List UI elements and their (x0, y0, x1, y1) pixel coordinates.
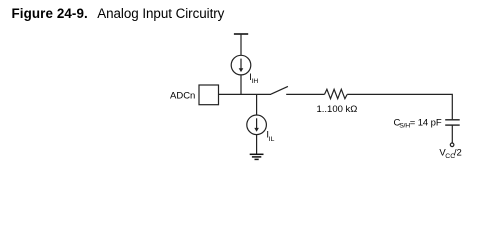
terminal VCC/2 (open circle) (450, 143, 454, 147)
label IIH (249, 72, 258, 85)
label VCC/2 (439, 147, 461, 159)
svg-text:1..100 kΩ: 1..100 kΩ (317, 104, 358, 115)
svg-text:= 14 pF: = 14 pF (410, 118, 442, 129)
svg-text:ADCn: ADCn (170, 90, 195, 101)
wire from capacitor to VCC/2 terminal (451, 125, 453, 143)
wire from input node down to IIL (256, 94, 258, 115)
wire from IIL to ground (256, 135, 258, 155)
wire from ADCn box to switch pivot (input node) (219, 93, 272, 95)
switch (sample/hold switch blade, open) (271, 86, 288, 94)
label CS/H = 14 pF (394, 118, 442, 130)
svg-text:IH: IH (252, 78, 259, 85)
resistor 1..100 kOhm (zigzag) (325, 89, 348, 98)
current source IIL (circle with down arrow) (247, 115, 267, 135)
current source IIH (U: circle with down arrow) (231, 55, 251, 75)
capacitor CS/H (445, 120, 460, 125)
power rail symbol (VCC) (234, 34, 248, 55)
label IIL (266, 130, 274, 143)
svg-text:IL: IL (269, 136, 275, 143)
ground (250, 154, 264, 159)
svg-text:Figure 24-9.: Figure 24-9. (12, 6, 88, 21)
svg-text:/2: /2 (454, 147, 462, 158)
figure title "Figure 24-9. Analog Input Circuitry" (12, 6, 225, 21)
svg-text:S/H: S/H (399, 123, 410, 130)
svg-text:Analog Input Circuitry: Analog Input Circuitry (97, 6, 224, 21)
wire from IIH to input node (240, 75, 242, 95)
pin ADCn (package pin box) (199, 85, 219, 105)
wire from switch throw to resistor (286, 93, 324, 95)
wire from resistor to capacitor branch corner (347, 94, 452, 119)
